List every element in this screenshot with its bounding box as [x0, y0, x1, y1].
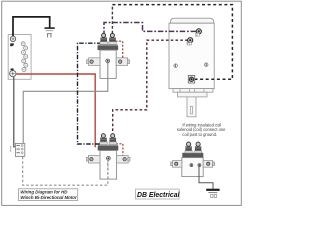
solenoid S2 cap — [98, 145, 119, 151]
terminal strip pins of SW1 — [21, 42, 28, 72]
motor M1 shaft — [187, 97, 196, 117]
label above terminal SW1-B — [11, 68, 14, 70]
page background — [0, 0, 244, 207]
wire W7 purple dash-dot: solenoid S1 left post to motor terminal A — [104, 23, 196, 37]
solenoid S2 right flange — [117, 155, 130, 163]
wire W4 gray: solenoid S1 coil terminal to connector J1 — [23, 63, 108, 145]
note text — [177, 122, 226, 137]
solenoid S1 right flange — [116, 58, 129, 66]
DB Electrical logo box — [136, 189, 181, 199]
motor M1 terminal F1 — [187, 38, 193, 46]
wire W3 dark green: control box bottom terminal down to connector J1 — [14, 77, 16, 147]
label under terminal SW1-A — [10, 43, 14, 46]
example solenoid S3 body — [182, 158, 203, 177]
motor M1 body — [169, 18, 214, 88]
solenoid S2 left post — [100, 134, 107, 145]
svg-text:Winch Bi-Directional Motor: Winch Bi-Directional Motor — [20, 195, 77, 200]
ground GND1 — [45, 27, 55, 37]
left flange of S3 — [171, 161, 182, 168]
motor M1 ground terminal box — [188, 75, 194, 83]
example solenoid S3 coil terminal 1 — [190, 164, 193, 167]
wire W5 gray dashed: connector J1 to solenoid S2 coil terminal — [23, 157, 108, 186]
control box SW1 — [8, 35, 31, 80]
right flange of S3 — [203, 161, 214, 168]
example solenoid S3 left post — [185, 142, 192, 153]
solenoid S1 left post — [100, 33, 107, 44]
solenoid S1 left flange — [87, 58, 100, 66]
connector J1 — [15, 143, 24, 156]
motor M1 vent bolt left — [174, 64, 178, 68]
solenoid S1 body — [100, 50, 116, 78]
terminal SW1-A (top) — [10, 36, 15, 41]
motor M1 base band 1 — [173, 89, 213, 93]
motor M1 base band 2 — [178, 92, 208, 97]
svg-text:Wiring Diagram for HD: Wiring Diagram for HD — [20, 190, 68, 195]
solenoid S1 cap — [98, 45, 119, 51]
wire W9 black dashed rail: top rail and right rail to motor ground terminal — [112, 5, 232, 80]
wire W2 red: control box bottom terminal to lower solenoid S2 left post — [16, 74, 95, 147]
svg-text:coil post to ground.: coil post to ground. — [182, 132, 217, 137]
wire W6 navy dash-dot: solenoid S1 left post to solenoid S2 left post — [78, 43, 102, 144]
example solenoid S3 right post — [195, 142, 202, 153]
example solenoid S3 cap — [182, 153, 203, 158]
wire W8 dark green dashed: solenoid S1 right post up to top rail — [111, 5, 113, 33]
label beside connector J1 — [10, 146, 11, 152]
svg-text:DB Electrical: DB Electrical — [137, 192, 181, 199]
wire W14: S3 coil terminal 2 to ground GND2 — [199, 167, 213, 189]
solenoid S1 coil terminal — [106, 59, 110, 63]
wire W11 red dashed jumper: solenoid S1 right post to its right flange — [116, 41, 123, 57]
terminal SW1-B (bottom) — [10, 70, 16, 76]
motor M1 terminal A — [195, 29, 201, 37]
wire W10 dark red dashed: motor terminal F1 to solenoid S2 right post — [113, 40, 188, 133]
title box — [19, 189, 78, 201]
wire W12 red dashed jumper: solenoid S2 right post to its right flange — [116, 144, 123, 156]
solenoid S2 coil terminal — [107, 156, 111, 160]
solenoid S2 right post — [109, 134, 116, 145]
wire W13 gray dashed: S2 coil terminal lead inside body — [107, 160, 109, 179]
solenoid S2 left flange — [86, 155, 100, 163]
ground GND2 — [206, 189, 219, 198]
example solenoid S3 coil terminal 2 — [198, 164, 201, 167]
solenoid S1 right post — [109, 33, 116, 44]
border frame — [2, 1, 242, 205]
solenoid S2 body — [100, 151, 117, 180]
motor M1 vent bolt right — [204, 63, 208, 67]
wire W1 black: control box top terminal to ground — [13, 17, 50, 36]
